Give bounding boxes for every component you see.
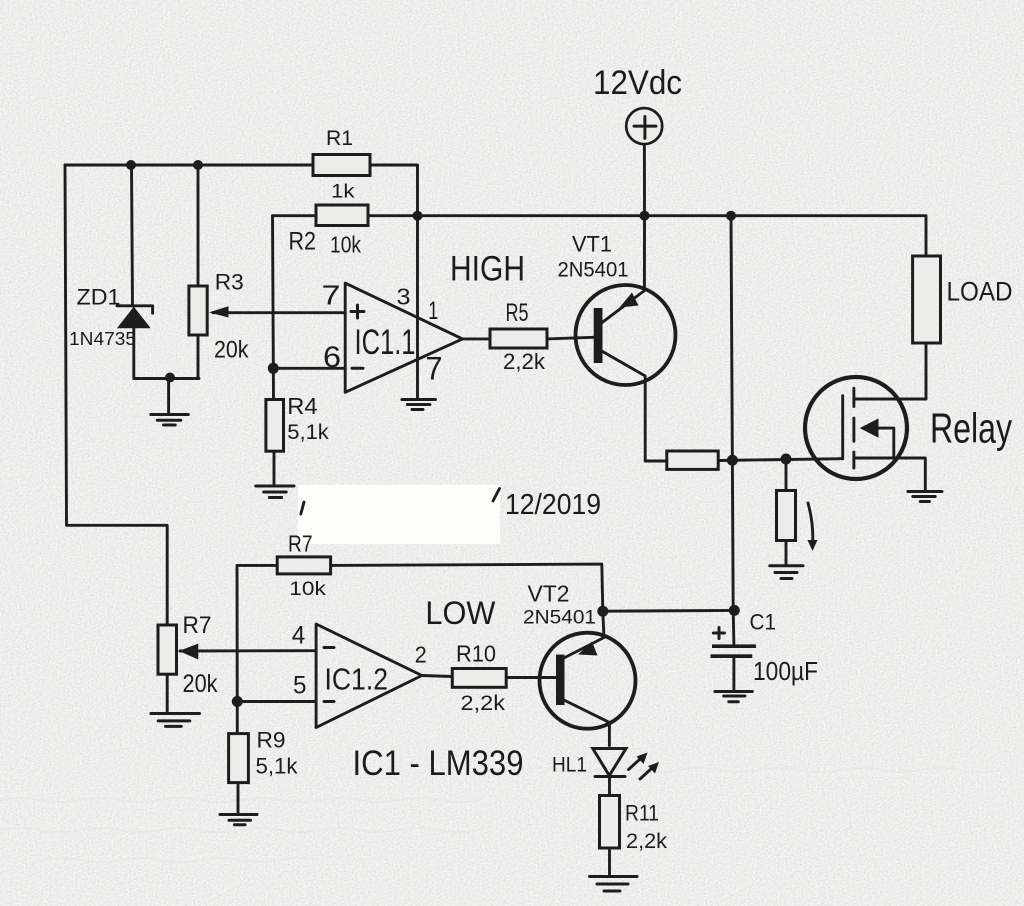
svg-text:2,2k: 2,2k bbox=[461, 692, 506, 715]
svg-text:5,1k: 5,1k bbox=[287, 421, 329, 444]
svg-text:VT1: VT1 bbox=[572, 232, 612, 257]
svg-text:2,2k: 2,2k bbox=[626, 829, 667, 853]
svg-text:5: 5 bbox=[293, 672, 307, 700]
svg-text:2: 2 bbox=[415, 642, 427, 668]
svg-text:20k: 20k bbox=[183, 670, 218, 698]
svg-text:R7: R7 bbox=[183, 613, 212, 639]
svg-text:VT2: VT2 bbox=[528, 581, 570, 607]
svg-text:C1: C1 bbox=[750, 610, 777, 635]
svg-text:Relay: Relay bbox=[930, 405, 1012, 452]
svg-text:1N4735: 1N4735 bbox=[69, 328, 136, 349]
svg-text:R7: R7 bbox=[288, 531, 313, 557]
svg-text:ZD1: ZD1 bbox=[77, 285, 121, 310]
svg-text:2,2k: 2,2k bbox=[503, 349, 546, 374]
svg-text:LOW: LOW bbox=[425, 594, 495, 631]
svg-text:1k: 1k bbox=[331, 181, 355, 203]
svg-text:R5: R5 bbox=[506, 300, 529, 327]
svg-text:20k: 20k bbox=[214, 337, 249, 364]
svg-text:7: 7 bbox=[426, 351, 443, 387]
svg-text:10k: 10k bbox=[289, 578, 326, 600]
svg-text:IC1 - LM339: IC1 - LM339 bbox=[353, 743, 524, 783]
svg-text:12Vdc: 12Vdc bbox=[593, 64, 682, 102]
svg-text:6: 6 bbox=[323, 341, 341, 374]
svg-text:3: 3 bbox=[397, 284, 411, 310]
svg-text:2N5401: 2N5401 bbox=[558, 259, 629, 282]
svg-text:5,1k: 5,1k bbox=[256, 754, 299, 779]
svg-text:HIGH: HIGH bbox=[450, 250, 525, 289]
svg-text:IC1.1: IC1.1 bbox=[355, 323, 416, 362]
svg-text:R11: R11 bbox=[625, 801, 659, 826]
svg-text:R10: R10 bbox=[456, 641, 496, 667]
svg-text:12/2019: 12/2019 bbox=[505, 489, 601, 521]
svg-text:LOAD: LOAD bbox=[947, 277, 1013, 307]
svg-text:IC1.2: IC1.2 bbox=[325, 662, 389, 697]
svg-text:7: 7 bbox=[322, 280, 341, 311]
svg-text:R2: R2 bbox=[289, 228, 317, 256]
svg-text:R9: R9 bbox=[257, 728, 286, 753]
svg-text:R3: R3 bbox=[215, 269, 244, 294]
svg-text:100µF: 100µF bbox=[753, 658, 818, 686]
svg-text:R1: R1 bbox=[326, 125, 353, 150]
svg-text:HL1: HL1 bbox=[552, 754, 587, 777]
svg-text:R4: R4 bbox=[287, 393, 317, 419]
svg-text:10k: 10k bbox=[330, 232, 362, 258]
svg-text:2N5401: 2N5401 bbox=[523, 607, 596, 629]
svg-text:1: 1 bbox=[428, 297, 438, 325]
svg-text:4: 4 bbox=[292, 622, 306, 650]
